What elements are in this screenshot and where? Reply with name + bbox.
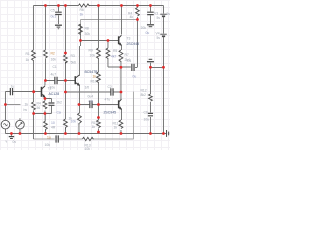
svg-text:5v: 5v: [156, 16, 160, 20]
svg-text:0u1: 0u1: [50, 15, 56, 19]
svg-text:0v: 0v: [12, 140, 16, 144]
svg-text:10u: 10u: [143, 118, 149, 122]
svg-text:R7: R7: [124, 53, 128, 57]
svg-text:5v: 5v: [166, 12, 170, 16]
svg-text:1k: 1k: [68, 117, 72, 121]
svg-text:47u: 47u: [104, 98, 110, 102]
svg-text:56: 56: [36, 106, 40, 110]
svg-text:4u7: 4u7: [50, 73, 56, 77]
svg-text:5k6: 5k6: [70, 61, 76, 65]
svg-text:1k: 1k: [92, 75, 96, 79]
svg-text:20k: 20k: [140, 26, 146, 30]
svg-text:1k: 1k: [79, 13, 83, 17]
svg-text:AC128: AC128: [48, 92, 59, 96]
svg-text:R6: R6: [79, 8, 83, 12]
svg-text:C2: C2: [107, 85, 111, 89]
svg-text:hv: hv: [23, 108, 27, 112]
svg-text:C9: C9: [143, 111, 147, 115]
svg-text:C1: C1: [52, 65, 56, 69]
svg-text:10k: 10k: [84, 147, 90, 150]
svg-text:1u: 1u: [10, 85, 14, 89]
svg-text:0u: 0u: [132, 75, 136, 79]
svg-text:R2: R2: [50, 52, 54, 56]
svg-text:C4: C4: [127, 59, 131, 63]
svg-text:T1: T1: [47, 87, 51, 91]
svg-text:1/0: 1/0: [84, 86, 89, 90]
svg-text:1k: 1k: [24, 103, 28, 107]
svg-text:R12: R12: [140, 89, 146, 93]
svg-text:0u4: 0u4: [87, 95, 93, 99]
svg-text:1k: 1k: [113, 126, 117, 130]
svg-text:10k: 10k: [44, 143, 50, 147]
svg-text:2SC945: 2SC945: [103, 111, 116, 115]
svg-text:Ca: Ca: [56, 111, 60, 115]
svg-text:1u: 1u: [47, 136, 51, 140]
svg-text:R8: R8: [84, 27, 88, 31]
svg-text:4k7: 4k7: [111, 55, 117, 59]
svg-text:10: 10: [51, 121, 55, 125]
svg-text:R5: R5: [113, 49, 117, 53]
svg-text:BC547B: BC547B: [84, 70, 98, 74]
svg-text:30k: 30k: [84, 32, 90, 36]
svg-text:C3: C3: [88, 100, 92, 104]
svg-text:5v: 5v: [156, 36, 160, 40]
svg-text:2SC945: 2SC945: [126, 42, 139, 46]
svg-text:8k2: 8k2: [140, 93, 146, 97]
svg-text:10k: 10k: [89, 54, 95, 58]
svg-text:R10: R10: [90, 80, 96, 84]
svg-text:4k: 4k: [129, 15, 133, 19]
svg-text:1k: 1k: [25, 58, 29, 62]
svg-text:C5: C5: [50, 9, 54, 13]
svg-text:R3: R3: [70, 54, 74, 58]
svg-text:1k: 1k: [91, 125, 95, 129]
svg-text:R1: R1: [25, 52, 29, 56]
svg-text:0u: 0u: [145, 31, 149, 35]
svg-text:4R: 4R: [51, 126, 56, 130]
svg-text:R4: R4: [36, 102, 40, 106]
svg-text:2k2: 2k2: [56, 101, 62, 105]
svg-text:v: v: [5, 140, 7, 144]
svg-text:T3: T3: [126, 37, 130, 41]
svg-text:16k: 16k: [50, 58, 56, 62]
svg-text:R9: R9: [88, 49, 92, 53]
